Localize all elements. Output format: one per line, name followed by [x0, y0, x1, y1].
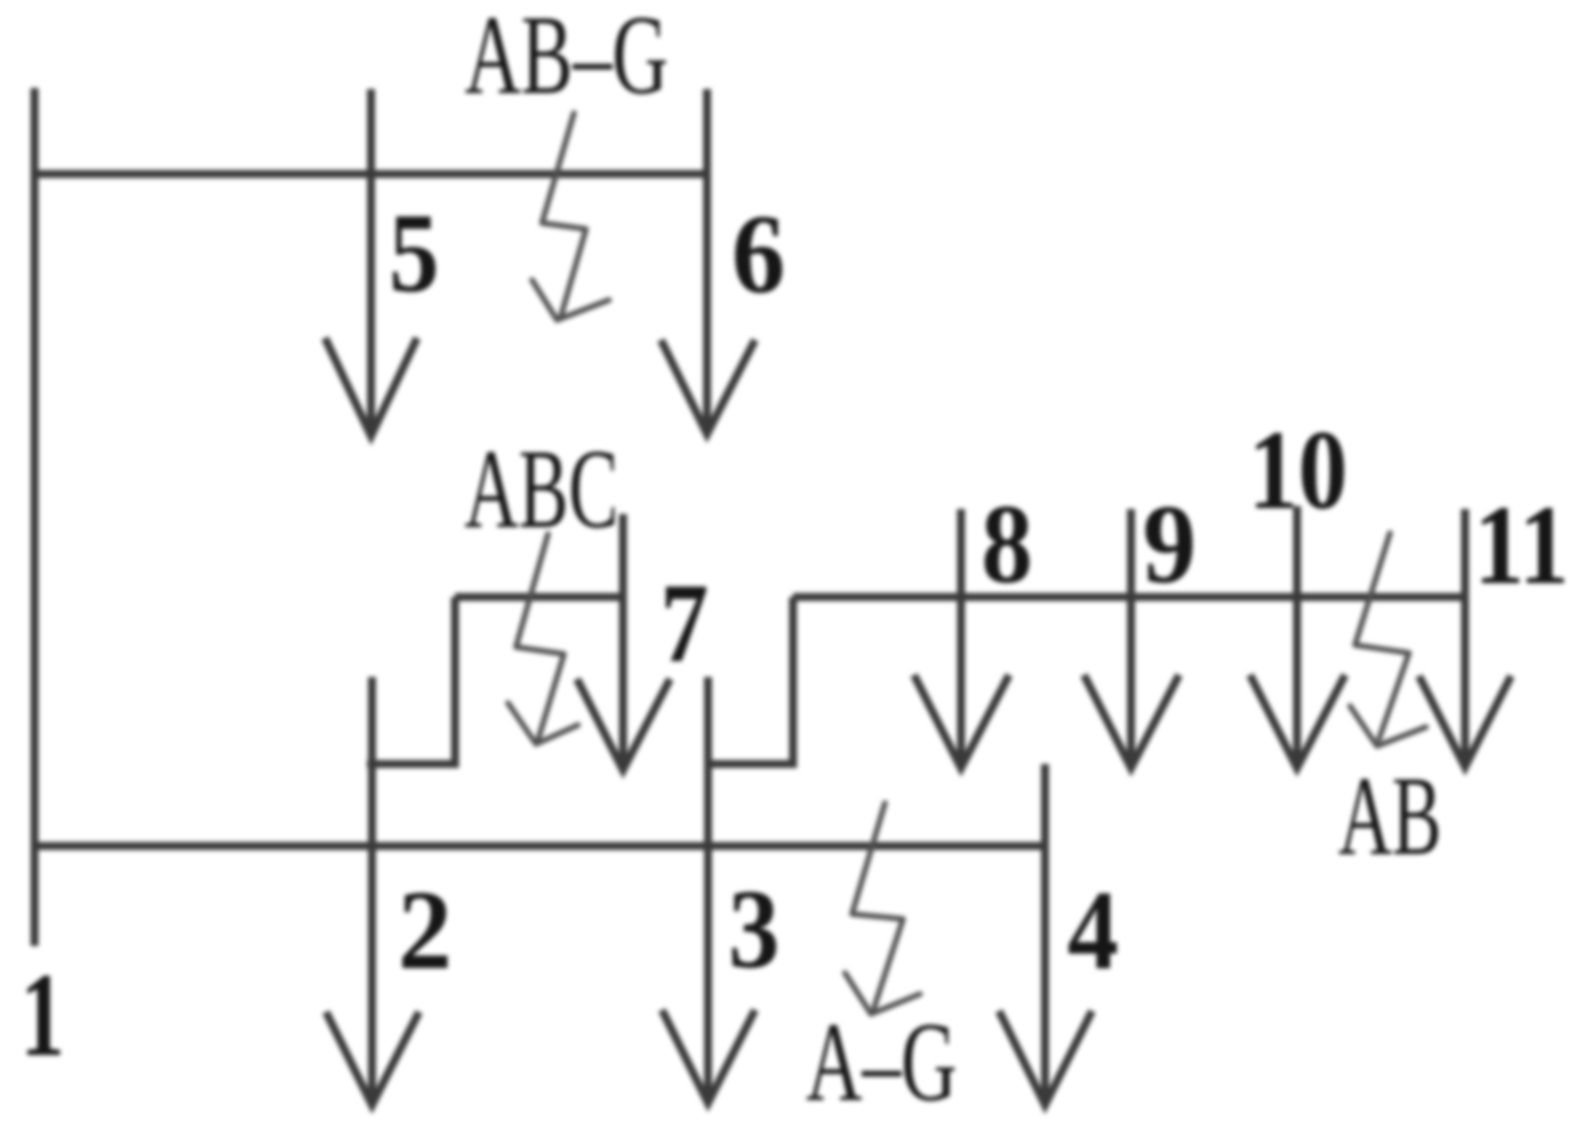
arrow head feeder 8 — [914, 675, 1009, 768]
label fault A-G — [806, 1000, 957, 1125]
label node 3 — [728, 868, 779, 992]
arrow head feeder 3 — [662, 1010, 755, 1103]
fault bolt A-G arrowhead — [845, 973, 920, 1014]
svg-text:AB: AB — [1338, 754, 1442, 879]
label node 5 — [389, 192, 439, 317]
svg-text:4: 4 — [1067, 869, 1118, 993]
svg-text:1: 1 — [20, 948, 64, 1081]
label node 9 — [1143, 482, 1197, 607]
feeder line 10 — [1293, 506, 1301, 767]
svg-text:11: 11 — [1474, 484, 1569, 609]
label node 10 — [1248, 408, 1347, 533]
fault bolt A-G stem — [852, 803, 903, 1008]
feeder line 2 — [368, 677, 376, 1105]
wire right step (feeder 3 to right bus) — [708, 597, 793, 764]
wire top bus — [35, 170, 708, 178]
svg-text:9: 9 — [1143, 482, 1197, 607]
label node 1 — [20, 948, 64, 1081]
svg-text:8: 8 — [981, 483, 1032, 607]
wire middle bus (feeder 7 bus) — [455, 593, 623, 601]
feeder line 9 — [1127, 509, 1135, 767]
label node 2 — [398, 867, 452, 992]
arrow head feeder 10 — [1250, 675, 1345, 768]
feeder line 7 — [619, 514, 627, 770]
feeder line 11 — [1461, 509, 1469, 765]
label node 4 — [1067, 869, 1118, 993]
arrow head feeder 6 — [661, 340, 755, 434]
svg-text:6: 6 — [732, 192, 786, 317]
fault bolt AB-G arrowhead — [532, 280, 609, 320]
arrow head feeder 9 — [1084, 675, 1179, 768]
label node 11 — [1474, 484, 1569, 609]
arrow head feeder 2 — [326, 1012, 419, 1105]
svg-text:AB–G: AB–G — [465, 0, 669, 117]
fault bolt AB arrowhead — [1350, 706, 1426, 746]
fault bolt AB stem — [1355, 533, 1409, 739]
wire left step (feeder 2 to middle bus) — [367, 597, 455, 764]
label node 8 — [981, 483, 1032, 607]
svg-text:5: 5 — [389, 192, 439, 317]
fault bolt AB-G stem — [542, 113, 586, 316]
arrow head feeder 7 — [577, 679, 670, 770]
bus 1 (left vertical bus) — [31, 88, 39, 946]
fault bolt ABC arrowhead — [508, 703, 578, 744]
label node 6 — [732, 192, 786, 317]
svg-text:2: 2 — [398, 867, 452, 992]
feeder line 5 — [367, 89, 375, 436]
feeder line 3 — [704, 677, 712, 1103]
label fault AB — [1338, 754, 1442, 879]
arrow head feeder 4 — [999, 1011, 1092, 1105]
arrow head feeder 5 — [325, 338, 417, 436]
fault bolt ABC stem — [516, 534, 564, 740]
feeder line 4 — [1041, 764, 1049, 1105]
label fault AB-G — [465, 0, 669, 117]
wire bottom bus — [35, 842, 1046, 850]
arrow head feeder 11 — [1419, 676, 1511, 767]
svg-text:ABC: ABC — [464, 427, 618, 552]
feeder line 6 — [703, 89, 711, 434]
feeder line 8 — [957, 509, 965, 767]
svg-text:7: 7 — [660, 561, 708, 686]
svg-text:3: 3 — [728, 868, 779, 992]
svg-text:A–G: A–G — [806, 1000, 957, 1125]
wire right bus — [793, 593, 1465, 601]
label node 7 — [660, 561, 708, 686]
svg-text:10: 10 — [1248, 408, 1347, 533]
label fault ABC — [464, 427, 618, 552]
